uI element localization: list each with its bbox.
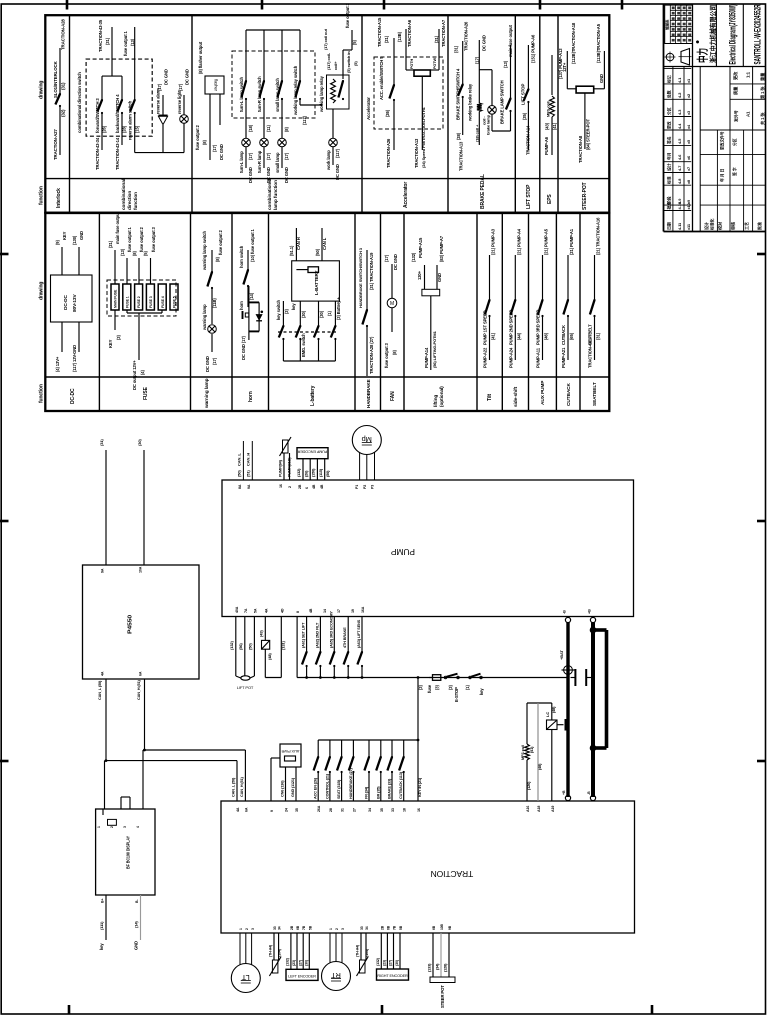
- svg-text:6B: 6B: [432, 925, 436, 930]
- EPS resistor: [544, 48, 563, 155]
- svg-text:5B: 5B: [308, 925, 312, 930]
- switch FR (34): [364, 740, 370, 801]
- svg-text:TRACTION-A14: TRACTION-A14: [526, 125, 531, 155]
- svg-text:(31) TRACTION-A19: (31) TRACTION-A19: [369, 252, 374, 290]
- svg-text:POTH: POTH: [410, 59, 414, 69]
- switch HANDBRAKE (27): [349, 740, 355, 801]
- svg-text:分区: 分区: [667, 107, 672, 115]
- svg-text:CUTBACK: CUTBACK: [566, 382, 572, 406]
- svg-text:(30): (30): [319, 310, 324, 318]
- svg-text:TRACTION-A7: TRACTION-A7: [441, 19, 446, 47]
- svg-text:18: 18: [403, 808, 407, 812]
- control supply wire: [297, 617, 568, 678]
- svg-text:lifting: lifting: [433, 395, 439, 407]
- svg-text:PUMP-A22: PUMP-A22: [483, 347, 488, 368]
- switch BRAKE (33): [387, 740, 393, 801]
- pump encoder box: [297, 448, 330, 489]
- svg-text:设计: 设计: [667, 163, 672, 171]
- svg-text:(133): (133): [428, 963, 432, 972]
- svg-text:fuse: fuse: [427, 684, 432, 693]
- svg-text:(35): (35): [522, 112, 527, 120]
- svg-text:34: 34: [365, 926, 369, 930]
- svg-text:(32): (32): [61, 109, 66, 117]
- svg-text:turn-R lamp switch: turn-R lamp switch: [257, 76, 262, 112]
- svg-text:2: 2: [335, 928, 339, 930]
- svg-text:horn: horn: [239, 301, 244, 310]
- svg-text:19: 19: [351, 609, 355, 613]
- svg-text:fuse output 3: fuse output 3: [345, 2, 350, 28]
- svg-text:DC GND: DC GND: [248, 167, 253, 183]
- working brake relay resistor: [468, 35, 487, 145]
- svg-text:(5): (5): [353, 61, 358, 66]
- svg-text:DC GND: DC GND: [266, 167, 271, 183]
- CAN bus line B: [143, 679, 245, 809]
- switch CONTROL (21): [325, 740, 331, 801]
- MFS coil wire: [521, 703, 534, 801]
- svg-text:(3): (3): [418, 685, 423, 690]
- switch ACC EN (26): [314, 740, 320, 801]
- svg-text:24: 24: [285, 808, 289, 812]
- warning lamp: [202, 304, 217, 372]
- svg-text:34: 34: [278, 926, 282, 930]
- svg-text:STEER-POT: STEER-POT: [582, 182, 588, 210]
- fuse wires: [108, 211, 162, 390]
- table 2 function row labels: [70, 378, 598, 409]
- svg-text:2B: 2B: [298, 484, 302, 489]
- svg-text:Tilt: Tilt: [487, 394, 493, 401]
- svg-text:(8): (8): [132, 251, 137, 256]
- svg-text:(17): (17): [284, 152, 289, 160]
- svg-text:function: function: [39, 186, 45, 205]
- svg-text:(113B)TRACTION-A5: (113B)TRACTION-A5: [596, 23, 601, 63]
- svg-text:(48): (48): [538, 763, 542, 770]
- svg-text:(31): (31): [434, 35, 439, 43]
- svg-text:DC GND (17): DC GND (17): [241, 335, 246, 360]
- svg-text:9B: 9B: [448, 925, 452, 930]
- FUSE 5: [170, 284, 178, 310]
- svg-text:lamp function: lamp function: [273, 180, 279, 210]
- svg-text:(50): (50): [237, 470, 242, 477]
- svg-text:GND (1121): GND (1121): [291, 777, 295, 797]
- pump bottom pin labels: [235, 606, 365, 613]
- svg-text:(14): (14): [134, 921, 139, 928]
- forward switch 3: [95, 76, 107, 170]
- svg-text:combinational: combinational: [121, 179, 127, 210]
- svg-text:BRAKE (33): BRAKE (33): [388, 778, 392, 799]
- pump motor thermistor: [279, 437, 293, 488]
- svg-text:main fuse output: main fuse output: [115, 211, 120, 244]
- svg-text:(41): (41): [552, 122, 557, 130]
- svg-text:CAN_L (50): CAN_L (50): [232, 777, 236, 797]
- svg-text:4B: 4B: [309, 608, 313, 613]
- svg-text:40A: 40A: [235, 606, 239, 613]
- svg-text:KEY: KEY: [62, 231, 67, 240]
- svg-text:LIFT STOP: LIFT STOP: [521, 84, 526, 105]
- svg-text:PUMP-A21: PUMP-A21: [561, 347, 566, 368]
- drawing title text: [728, 5, 739, 65]
- svg-text:2B: 2B: [380, 925, 384, 930]
- svg-text:(21): (21): [384, 35, 389, 43]
- svg-text:重量: 重量: [759, 72, 766, 81]
- svg-text:TRACTION-A26: TRACTION-A26: [386, 138, 391, 168]
- svg-text:(13): (13): [120, 248, 125, 256]
- svg-text:(132): (132): [297, 468, 301, 477]
- svg-text:工艺: 工艺: [743, 222, 749, 230]
- svg-text:FUSE 4: FUSE 4: [161, 296, 165, 308]
- CAN bus line A: [105, 679, 238, 809]
- svg-text:(11B): (11B): [212, 298, 217, 308]
- lift stop switch: [521, 34, 536, 155]
- svg-text:(117) 13V-GND: (117) 13V-GND: [72, 345, 77, 372]
- projection symbol: [665, 49, 692, 66]
- svg-text:(126): (126): [527, 781, 531, 790]
- svg-text:main fuse output: main fuse output: [508, 24, 513, 57]
- svg-text:(31): (31): [105, 37, 110, 45]
- pump -B terminal: [563, 610, 571, 623]
- svg-text:浙江中力机械有限公司: 浙江中力机械有限公司: [709, 5, 718, 63]
- svg-text:CUTBACK: CUTBACK: [561, 325, 566, 345]
- svg-text:CN6 (136): CN6 (136): [281, 780, 285, 797]
- svg-text:(43): (43): [545, 122, 550, 130]
- svg-text:4B: 4B: [320, 484, 324, 489]
- svg-text:horn: horn: [248, 391, 254, 402]
- svg-text:16: 16: [417, 808, 421, 812]
- right motor thermistor: [356, 933, 370, 976]
- svg-text:(41): (41): [530, 746, 534, 753]
- svg-text:(132): (132): [286, 957, 290, 966]
- svg-text:(3): (3): [284, 309, 289, 314]
- svg-text:RIGHT ENCODER: RIGHT ENCODER: [377, 974, 408, 978]
- svg-text:CONTROL (21): CONTROL (21): [325, 773, 329, 799]
- svg-text:KEY: KEY: [108, 339, 113, 348]
- svg-text:coil+: coil+: [333, 61, 338, 70]
- svg-text:L-BATTERY: L-BATTERY: [314, 271, 319, 295]
- svg-text:LEFT ENCODER: LEFT ENCODER: [288, 974, 316, 978]
- key switch chain: [276, 297, 341, 361]
- aux pwr box: [271, 744, 301, 801]
- reverse signal wire: [135, 152, 184, 154]
- svg-text:GND: GND: [79, 231, 84, 240]
- svg-text:(104): (104): [365, 948, 369, 957]
- svg-text:TRACTION-A13: TRACTION-A13: [459, 141, 464, 171]
- svg-text:4B: 4B: [312, 484, 316, 489]
- svg-text:(TH-A4): (TH-A4): [356, 944, 360, 957]
- svg-text:35: 35: [295, 808, 299, 812]
- svg-text:key: key: [479, 688, 484, 695]
- svg-text:(23): (23): [383, 959, 387, 966]
- interlock switch cell: [53, 19, 66, 160]
- svg-text:标准: 标准: [667, 176, 672, 185]
- svg-text:forward/SWITCH 3: forward/SWITCH 3: [95, 98, 100, 133]
- svg-text:TRACTION: TRACTION: [431, 869, 473, 879]
- PUMP 3RD SPEED switch: [536, 228, 549, 368]
- svg-text:TRACTION-43-14: TRACTION-43-14: [115, 137, 120, 170]
- battery CAN wires: [289, 228, 327, 270]
- svg-text:turn-R lamp: turn-R lamp: [257, 150, 262, 173]
- svg-text:warning lamp: warning lamp: [204, 378, 210, 409]
- svg-text:TRACTION-A27: TRACTION-A27: [53, 129, 58, 160]
- controller U1 TRACTION block: [221, 801, 635, 933]
- svg-text:fuse output 2: fuse output 2: [139, 226, 144, 252]
- svg-text:(27): (27): [299, 959, 303, 966]
- small lamp switch: [275, 30, 289, 183]
- svg-text:working lamp relay switch: working lamp relay switch: [293, 65, 298, 116]
- turn-R lamp switch: [257, 30, 271, 183]
- svg-text:BRAKE PEDAL: BRAKE PEDAL: [480, 174, 486, 209]
- svg-text:FUSE 1: FUSE 1: [125, 296, 129, 308]
- svg-text:8: 8: [296, 611, 300, 613]
- svg-text:fuse output 1: fuse output 1: [123, 30, 128, 56]
- svg-text:批准: 批准: [756, 222, 762, 230]
- svg-text:(65): (65): [569, 332, 574, 340]
- svg-text:(83) PUMP-A7: (83) PUMP-A7: [439, 235, 444, 262]
- svg-text:(21) PUMP-A1: (21) PUMP-A1: [569, 228, 574, 255]
- svg-text:10A: 10A: [139, 566, 143, 573]
- svg-text:TRACTION-A6: TRACTION-A6: [407, 19, 412, 47]
- svg-text:标准化: 标准化: [710, 218, 715, 231]
- svg-text:16: 16: [279, 484, 283, 488]
- left motor thermistor: [269, 933, 282, 976]
- svg-text:6: 6: [305, 487, 309, 489]
- svg-text:4A: 4A: [264, 608, 268, 613]
- svg-text:34: 34: [368, 808, 372, 812]
- svg-text:AUX PWR: AUX PWR: [281, 749, 299, 754]
- svg-text:DC-DC: DC-DC: [70, 388, 76, 404]
- svg-text:(8): (8): [392, 350, 397, 355]
- svg-text:(1): (1): [327, 311, 332, 316]
- svg-text:33: 33: [391, 808, 395, 812]
- svg-text:horn switch: horn switch: [239, 245, 244, 268]
- svg-text:FUSE 5: FUSE 5: [173, 296, 177, 308]
- title block logo cell: [664, 4, 766, 232]
- right traction motor RT: [322, 933, 351, 991]
- svg-text:10B: 10B: [440, 923, 444, 930]
- svg-text:(30): (30): [301, 310, 306, 318]
- svg-text:Accelerator: Accelerator: [403, 182, 409, 208]
- instrument box P4550: [83, 439, 200, 700]
- svg-text:更改: 更改: [667, 121, 672, 129]
- svg-text:(21): (21): [108, 240, 113, 248]
- PUMP 2ND SPEED switch: [508, 228, 521, 368]
- svg-text:(17): (17): [475, 56, 480, 64]
- svg-text:(11): (11): [266, 125, 271, 132]
- svg-text:GND: GND: [599, 74, 604, 83]
- svg-text:(21) PUMP-A4: (21) PUMP-A4: [516, 228, 521, 255]
- svg-text:(31): (31): [454, 45, 459, 53]
- svg-text:(A65) 3RD ECONOMY: (A65) 3RD ECONOMY: [329, 611, 333, 648]
- display key gnd wires: [99, 895, 141, 950]
- svg-text:DC GND: DC GND: [185, 69, 190, 85]
- svg-text:(4) 13V+: (4) 13V+: [55, 356, 60, 372]
- function table 1 grid: [45, 15, 609, 213]
- svg-text:DC GND: DC GND: [393, 254, 398, 270]
- svg-text:reverse alarm switch: reverse alarm switch: [128, 100, 133, 140]
- pump +B terminal: [588, 609, 596, 623]
- svg-text:backward/SWITCH 4: backward/SWITCH 4: [115, 94, 120, 133]
- svg-text:TRACTION-A15: TRACTION-A15: [377, 17, 382, 47]
- svg-text:(48): (48): [267, 653, 272, 660]
- reverse alarm horn: [156, 69, 169, 152]
- traction -B terminal: [587, 791, 596, 801]
- bus capacitor: [571, 669, 592, 686]
- svg-text:4-7: 4-7: [677, 166, 682, 171]
- left traction motor LT: [231, 933, 260, 993]
- svg-text:ACC. enable/SWITCH 5: ACC. enable/SWITCH 5: [379, 56, 384, 100]
- svg-text:±7: ±7: [686, 167, 691, 171]
- svg-text:fuse output 3: fuse output 3: [384, 342, 389, 368]
- svg-text:CAN_H (51): CAN_H (51): [240, 776, 244, 797]
- svg-text:LIFT STOP: LIFT STOP: [526, 184, 532, 209]
- svg-text:work lamp: work lamp: [326, 150, 331, 171]
- brake lamp switch: [492, 24, 513, 131]
- svg-text:flasher: flasher: [214, 79, 219, 91]
- svg-text:5A: 5A: [253, 608, 257, 613]
- svg-text:5B: 5B: [399, 925, 403, 930]
- svg-text:SEATBELT: SEATBELT: [592, 382, 598, 406]
- svg-text:(132): (132): [411, 252, 416, 262]
- controller U2 PUMP block: [222, 480, 634, 617]
- title block right cells: [700, 67, 766, 131]
- svg-text:(151) PUMP-A6: (151) PUMP-A6: [531, 34, 536, 63]
- svg-text:3: 3: [123, 826, 127, 828]
- svg-text:设计: 设计: [703, 222, 709, 230]
- svg-text:(13): (13): [130, 38, 135, 46]
- svg-text:4-11: 4-11: [677, 222, 682, 230]
- svg-text:BRAKE LAMP SWITCH: BRAKE LAMP SWITCH: [500, 80, 505, 124]
- svg-text:-B: -B: [587, 791, 591, 795]
- svg-text:(31): (31): [596, 332, 601, 340]
- svg-text:(31): (31): [61, 82, 66, 90]
- svg-text:A18: A18: [537, 806, 541, 812]
- svg-text:DC GND: DC GND: [164, 69, 169, 85]
- FUSE 2: [135, 284, 143, 310]
- svg-text:DC output 13V+: DC output 13V+: [132, 360, 137, 390]
- svg-text:P3: P3: [371, 485, 375, 489]
- svg-text:(A61) SET LIFT: (A61) SET LIFT: [302, 622, 306, 648]
- svg-text:DC-DC: DC-DC: [63, 294, 69, 310]
- svg-text:function: function: [39, 384, 45, 403]
- svg-text:DC GND: DC GND: [205, 356, 210, 372]
- svg-text:side-shift: side-shift: [513, 386, 519, 407]
- svg-text:PUMP ENCODER: PUMP ENCODER: [297, 450, 327, 454]
- svg-text:(41): (41): [491, 332, 496, 340]
- steer pot: [428, 933, 456, 1008]
- SEATBELT switch: [588, 217, 601, 368]
- flasher box: [195, 41, 224, 160]
- svg-text:17: 17: [337, 609, 341, 613]
- svg-text:7A: 7A: [244, 608, 248, 613]
- svg-text:LIFT POT: LIFT POT: [237, 685, 254, 690]
- svg-text:CAN_H (51): CAN_H (51): [137, 679, 141, 700]
- svg-text:日期: 日期: [667, 222, 672, 230]
- svg-text:(115): (115): [319, 468, 323, 477]
- PUMP 1ST SPEED switch: [483, 228, 496, 368]
- svg-text:FAN: FAN: [390, 391, 396, 401]
- svg-text:Accelerator: Accelerator: [366, 97, 371, 120]
- svg-text:working brake relay: working brake relay: [468, 83, 473, 122]
- E-STOP switch: [444, 674, 459, 702]
- svg-text:key: key: [99, 943, 104, 950]
- svg-text:7B: 7B: [393, 925, 397, 930]
- svg-text:1: 1: [97, 826, 101, 828]
- svg-text:P1: P1: [355, 485, 359, 489]
- table 1 function row labels: [56, 174, 588, 210]
- svg-text:DC GND: DC GND: [335, 164, 340, 180]
- svg-text:function: function: [133, 192, 139, 210]
- svg-text:brake lamp: brake lamp: [486, 114, 491, 135]
- svg-text:SEAT (31B): SEAT (31B): [337, 779, 341, 799]
- svg-text:TRACTION-43-34: TRACTION-43-34: [95, 137, 100, 170]
- battery positive bus with loop: [590, 623, 607, 797]
- svg-text:●: ●: [695, 40, 702, 44]
- function table 2 grid: [45, 213, 609, 411]
- svg-text:Interlock: Interlock: [56, 188, 62, 208]
- svg-text:+B: +B: [562, 790, 566, 795]
- svg-text:LC: LC: [545, 712, 550, 717]
- svg-text:DC GND: DC GND: [284, 167, 289, 183]
- svg-text:(24) Speed Pot/TRACTION-POTH1: (24) Speed Pot/TRACTION-POTH1: [421, 106, 426, 168]
- svg-text:(TH-A4): (TH-A4): [269, 944, 273, 957]
- +BAT terminal symbol: [559, 650, 575, 677]
- svg-text:(17): (17): [212, 357, 217, 365]
- svg-text:(21) TRACTION-A16: (21) TRACTION-A16: [596, 217, 601, 255]
- svg-text:中力: 中力: [696, 48, 710, 63]
- fuse output 3 wire: [323, 2, 357, 79]
- svg-text:1: 1: [329, 928, 333, 930]
- working lamp relay switch: [246, 30, 322, 125]
- svg-text:(150): (150): [312, 468, 316, 477]
- key switch main: [465, 674, 484, 695]
- reverse light lamp: [177, 69, 190, 152]
- fuse dashed box: [107, 280, 176, 316]
- svg-text:(17): (17): [266, 152, 271, 160]
- svg-text:(26): (26): [305, 470, 309, 477]
- svg-text:28: 28: [329, 808, 333, 812]
- combinational lamp switch dashed box: [232, 51, 315, 118]
- svg-text:(104): (104): [278, 948, 282, 957]
- lifting pot: [411, 235, 444, 370]
- svg-text:120+: 120+: [417, 270, 422, 280]
- svg-text:STEER POT: STEER POT: [440, 985, 445, 1008]
- svg-text:9A: 9A: [101, 568, 105, 573]
- svg-text:2: 2: [288, 486, 292, 488]
- right encoder box: [376, 933, 409, 980]
- svg-text:TRACTION-A13: TRACTION-A13: [414, 138, 419, 168]
- svg-text:签名: 签名: [667, 136, 672, 145]
- svg-text:管脚表: 管脚表: [665, 19, 670, 30]
- svg-text:fuse output 2: fuse output 2: [195, 124, 200, 150]
- svg-text:CAN_H: CAN_H: [246, 453, 251, 466]
- svg-text:(17): (17): [212, 144, 217, 152]
- traction input switch bank bus: [318, 676, 422, 801]
- svg-text:FUSE: FUSE: [143, 386, 149, 400]
- line contactor LC: [527, 703, 568, 801]
- svg-text:(A62) 2ND FILT: (A62) 2ND FILT: [315, 622, 319, 648]
- svg-text:working lamp relay: working lamp relay: [319, 75, 324, 113]
- svg-text:GND: GND: [134, 941, 139, 950]
- svg-text:drawing: drawing: [39, 282, 45, 300]
- svg-text:(13): (13): [503, 60, 508, 68]
- traction top pin labels: [236, 805, 555, 812]
- svg-text:TRACTION-A28: TRACTION-A28: [61, 19, 66, 50]
- svg-text:4A: 4A: [236, 807, 240, 812]
- svg-text:KEY IN (21): KEY IN (21): [418, 777, 422, 797]
- svg-text:MAIN FUSE: MAIN FUSE: [114, 289, 118, 308]
- svg-text:(117): (117): [302, 115, 307, 125]
- handbrake switch: [358, 247, 374, 376]
- svg-text:12T+: 12T+: [562, 62, 567, 72]
- svg-text:1: 1: [239, 928, 243, 930]
